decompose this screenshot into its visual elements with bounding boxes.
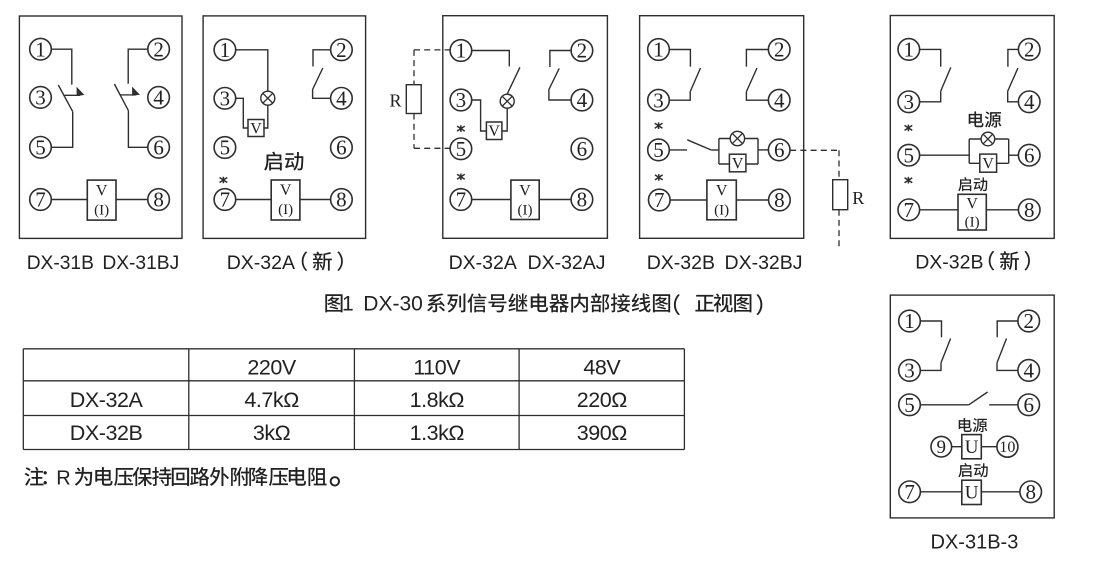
relay case DX-31B-3 outline <box>890 295 1054 518</box>
wire contact K2 to terminal 4 <box>746 92 768 101</box>
wire coil to terminal8 <box>736 199 768 201</box>
svg-text:V: V <box>966 196 978 213</box>
wire group to terminal 6 <box>1009 154 1019 156</box>
svg-text:4: 4 <box>1024 90 1035 114</box>
wire contact K3 to lamp group <box>711 149 719 151</box>
terminal 6 <box>768 138 790 162</box>
wire terminal3 to V resistor <box>472 100 487 131</box>
asterisk marker terminal 5 <box>655 122 663 129</box>
note: R is an external voltage-dropping resistor for the voltage holding loop <box>25 467 340 489</box>
terminal 5 <box>214 136 236 160</box>
svg-text:8: 8 <box>336 188 347 212</box>
svg-text:V: V <box>96 182 108 199</box>
svg-text:4: 4 <box>336 86 347 110</box>
wire contact K2 to terminal 6 <box>128 111 147 148</box>
wire terminal3 to V resistor <box>236 98 248 128</box>
terminal 8 <box>331 188 353 212</box>
contact K2 motion arrow <box>120 87 140 96</box>
wire contact K2 to terminal 4 <box>997 363 1018 371</box>
wire coil to terminal8 <box>986 209 1018 211</box>
coil V(I) box DX-32A <box>271 180 300 220</box>
power coil U box <box>962 435 982 459</box>
figure caption: Fig.1 DX-30 series signal relay internal wiring (front view) <box>325 293 762 316</box>
svg-text:6: 6 <box>336 136 347 160</box>
wire terminal1 to contact K1 <box>472 51 509 67</box>
wire terminal7 to U box <box>920 491 961 493</box>
wire U box to terminal10 <box>981 446 997 448</box>
terminal 1 <box>899 309 921 333</box>
svg-text:DX-32BJ: DX-32BJ <box>725 252 803 274</box>
V branch wire <box>719 163 758 165</box>
external resistor R dashed lead left upper <box>413 50 415 85</box>
svg-text:5: 5 <box>35 135 46 159</box>
resistor box V <box>486 122 502 140</box>
terminal 7 <box>450 188 472 212</box>
wire coil to terminal8 <box>539 199 571 201</box>
wire contact K3 to terminal 6 <box>989 404 1018 406</box>
asterisk marker terminal 7 <box>457 174 465 181</box>
terminal 1 <box>214 38 236 62</box>
resistor R body <box>406 85 421 114</box>
terminal 2 <box>1018 38 1040 62</box>
label qidong (start) <box>264 152 303 171</box>
terminal 4 <box>148 86 170 110</box>
svg-text:(I): (I) <box>278 202 293 218</box>
svg-text:8: 8 <box>153 188 164 212</box>
svg-text:DX-32A: DX-32A <box>449 252 517 274</box>
svg-text:3kΩ: 3kΩ <box>253 421 291 445</box>
svg-text:3: 3 <box>220 86 231 110</box>
terminal 5 <box>648 138 670 162</box>
svg-text:DX-31B-3: DX-31B-3 <box>931 531 1019 553</box>
terminal 6 <box>571 137 593 161</box>
svg-text:2: 2 <box>336 38 347 62</box>
contact K2 moving blade <box>1008 68 1018 91</box>
svg-text:DX-30: DX-30 <box>363 293 423 316</box>
svg-text:48V: 48V <box>583 355 621 379</box>
svg-text:1: 1 <box>220 38 231 62</box>
wire terminal7 to coil <box>472 199 511 201</box>
contact K2 moving blade <box>313 68 323 90</box>
svg-text:10: 10 <box>999 439 1015 456</box>
terminal 3 <box>214 86 236 110</box>
external resistor R dashed lead top <box>414 49 450 51</box>
terminal 2 <box>1018 309 1040 333</box>
terminal 4 <box>1018 90 1040 114</box>
svg-text:220V: 220V <box>247 355 297 379</box>
svg-text:8: 8 <box>1024 198 1035 222</box>
svg-text:6: 6 <box>774 138 785 162</box>
wire terminal2 to contact K2 <box>313 50 331 67</box>
terminal 6 <box>331 136 353 160</box>
wire terminal5 to lamp group <box>920 154 970 156</box>
label qidong (start) <box>958 177 987 191</box>
wire terminal7 to coil <box>670 199 707 201</box>
svg-text:8: 8 <box>1025 480 1036 504</box>
wire contact K1 to terminal 3 <box>920 91 941 102</box>
terminal 10 <box>997 436 1018 457</box>
terminal 8 <box>1020 480 1042 504</box>
svg-text:9: 9 <box>937 437 947 458</box>
terminal 4 <box>1018 359 1040 383</box>
contact K2 moving blade <box>114 84 128 111</box>
terminal 7 <box>214 188 236 212</box>
svg-text:1.8kΩ: 1.8kΩ <box>410 388 465 412</box>
V branch wire <box>969 162 1009 164</box>
dashed lead terminal6 to resistor R <box>790 149 839 151</box>
terminal 8 <box>769 188 791 212</box>
relay case DX-32B/DX-32BJ outline <box>640 16 804 239</box>
svg-text:5: 5 <box>220 136 231 160</box>
lamp branch wire <box>719 138 758 140</box>
wire group to terminal 6 <box>758 149 768 151</box>
contact K3 moving blade <box>969 392 988 405</box>
terminal 1 <box>450 39 472 63</box>
svg-text:6: 6 <box>1023 393 1034 417</box>
wire terminal2 to contact K2 <box>997 321 1018 337</box>
svg-text:5: 5 <box>904 393 915 417</box>
terminal 5 <box>450 137 472 161</box>
contact K1 moving blade <box>690 68 700 92</box>
terminal 5 <box>30 135 52 159</box>
label dianyuan (power) <box>959 418 988 432</box>
svg-text:2: 2 <box>774 38 785 62</box>
relay case DX-32A(new) outline <box>203 16 366 239</box>
svg-text:DX-32B: DX-32B <box>647 252 715 274</box>
contact K1 moving blade <box>58 85 72 112</box>
svg-text:6: 6 <box>153 135 164 159</box>
wire terminal2 to contact K2 <box>1008 49 1019 66</box>
svg-text:(I): (I) <box>714 202 729 218</box>
relay case DX-31B outline <box>19 16 182 238</box>
resistor box V <box>248 120 264 138</box>
terminal 4 <box>331 86 353 110</box>
wire terminal2 to contact K2 <box>746 50 768 67</box>
external resistor R dashed lead bottom <box>414 147 450 149</box>
terminal 3 <box>450 88 472 112</box>
terminal 3 <box>898 90 920 114</box>
wire contact K1 to terminal 3 <box>669 92 690 101</box>
svg-text:(I): (I) <box>518 202 533 218</box>
svg-text:2: 2 <box>577 39 588 63</box>
svg-text:R: R <box>56 467 70 489</box>
svg-text:1: 1 <box>342 293 354 316</box>
lamp/V parallel group right rail <box>1008 139 1010 163</box>
svg-text:DX-32AJ: DX-32AJ <box>528 252 606 274</box>
terminal 5 <box>899 393 921 417</box>
wire U box to terminal8 <box>981 491 1020 493</box>
wire lamp to V resistor <box>502 108 507 131</box>
svg-text:5: 5 <box>904 143 915 167</box>
label qidong (start) <box>958 463 987 477</box>
wire terminal7 to coil <box>920 209 958 211</box>
svg-text:DX-32A: DX-32A <box>227 252 295 274</box>
terminal 3 <box>30 86 52 110</box>
svg-text:2: 2 <box>153 37 164 61</box>
svg-text:8: 8 <box>577 188 588 212</box>
terminal 3 <box>899 359 921 383</box>
contact K2 moving blade <box>997 339 1007 363</box>
svg-text:7: 7 <box>904 198 915 222</box>
wire terminal1 to contact K1 <box>669 50 690 67</box>
wire terminal7 to coil <box>51 199 87 201</box>
svg-text:R: R <box>852 188 864 208</box>
svg-text:390Ω: 390Ω <box>577 421 628 445</box>
svg-text:1: 1 <box>653 38 664 62</box>
terminal 7 <box>899 480 921 504</box>
lamp/V parallel group right rail <box>757 139 759 165</box>
external resistor R dashed lead left lower <box>413 114 415 149</box>
terminal 5 <box>898 143 920 167</box>
terminal 7 <box>649 188 671 212</box>
terminal 8 <box>571 188 593 212</box>
dashed lead down to resistor R <box>838 150 840 179</box>
svg-text:DX-31BJ: DX-31BJ <box>102 253 179 274</box>
svg-text:7: 7 <box>35 188 46 212</box>
lamp branch wire <box>969 138 1009 140</box>
svg-text:V: V <box>519 182 531 199</box>
contact K1 motion arrow <box>64 87 84 96</box>
svg-text:4.7kΩ: 4.7kΩ <box>244 388 299 412</box>
terminal 1 <box>648 38 670 62</box>
terminal 7 <box>30 188 52 212</box>
contact K2 moving blade <box>549 68 559 89</box>
svg-text:V: V <box>716 182 728 199</box>
svg-text:7: 7 <box>456 188 467 212</box>
terminal 6 <box>148 135 170 159</box>
terminal 4 <box>571 88 593 112</box>
terminal 4 <box>768 88 790 112</box>
contact K3 moving blade <box>687 140 711 150</box>
terminal 2 <box>768 38 790 62</box>
svg-text:DX-32A: DX-32A <box>70 388 144 412</box>
svg-text:1: 1 <box>456 39 467 63</box>
coil V(I) box DX-32B/BJ <box>707 180 736 220</box>
svg-text:4: 4 <box>774 88 785 112</box>
asterisk marker terminal 7 <box>905 177 913 184</box>
contact K1 moving blade <box>941 67 951 91</box>
svg-text:110V: 110V <box>413 355 461 379</box>
wire contact K1 to terminal 5 <box>51 112 72 148</box>
svg-text:3: 3 <box>35 86 46 110</box>
terminal 7 <box>898 198 920 222</box>
svg-text:1.3kΩ: 1.3kΩ <box>410 421 465 445</box>
terminal 2 <box>331 38 353 62</box>
wire contact K1 to terminal 3 <box>920 363 941 371</box>
wire terminal1 to contact K1 <box>920 49 941 66</box>
svg-text:U: U <box>965 483 979 504</box>
wire terminal2 to contact K2 fixed end <box>128 49 148 83</box>
wire terminal9 to U box <box>952 446 962 448</box>
svg-text:8: 8 <box>774 188 785 212</box>
lamp/V parallel group left rail <box>968 139 970 163</box>
table cell text <box>70 355 627 445</box>
lamp/V parallel group left rail <box>718 139 720 165</box>
terminal 6 <box>1018 143 1040 167</box>
svg-text:V: V <box>250 120 262 137</box>
signal lamp HL <box>261 91 275 105</box>
terminal 1 <box>30 37 52 61</box>
wire terminal5 to contact K3 <box>669 149 687 151</box>
coil V(I) box DX-32A/AJ <box>511 180 539 219</box>
svg-text:2: 2 <box>1024 38 1035 62</box>
svg-text:5: 5 <box>456 137 467 161</box>
terminal 1 <box>898 38 920 62</box>
resistance table grid <box>23 349 684 450</box>
terminal 2 <box>571 39 593 63</box>
resistor box V <box>980 154 997 172</box>
svg-text:(I): (I) <box>965 215 980 231</box>
wire terminal1 to contact K1 <box>920 321 941 337</box>
svg-text:V: V <box>280 182 292 199</box>
wire terminal1 to lamp <box>236 50 268 91</box>
dashed lead below resistor R <box>838 210 840 248</box>
signal lamp HL <box>730 131 744 145</box>
svg-text:7: 7 <box>654 188 665 212</box>
wire terminal2 to contact K2 <box>550 51 571 68</box>
wire terminal5 to contact K3 <box>920 404 969 406</box>
wire contact K2 to terminal 4 <box>313 90 331 99</box>
asterisk marker terminal 5 <box>905 125 913 132</box>
asterisk marker terminal 7 <box>220 177 228 184</box>
svg-text:6: 6 <box>1024 143 1035 167</box>
svg-text:DX-32B: DX-32B <box>70 421 143 445</box>
svg-text:(I): (I) <box>94 202 109 218</box>
svg-text:1: 1 <box>35 37 46 61</box>
svg-text:1: 1 <box>904 309 915 333</box>
svg-text:V: V <box>982 155 994 172</box>
contact K2 moving blade <box>746 68 757 92</box>
signal lamp HL <box>500 94 514 108</box>
svg-text:220Ω: 220Ω <box>577 388 628 412</box>
relay case DX-32B(new) outline <box>890 16 1054 239</box>
terminal 8 <box>148 188 170 212</box>
terminal 3 <box>648 88 670 112</box>
svg-text:3: 3 <box>904 359 915 383</box>
svg-text:R: R <box>389 90 401 110</box>
asterisk marker terminal 7 <box>655 174 663 181</box>
wire terminal7 to coil <box>236 199 272 201</box>
terminal 6 <box>1018 393 1040 417</box>
svg-text:7: 7 <box>220 188 231 212</box>
svg-text:7: 7 <box>904 480 915 504</box>
asterisk marker terminal 5 <box>457 125 465 132</box>
svg-text:4: 4 <box>1023 359 1034 383</box>
svg-text:1: 1 <box>904 38 915 62</box>
svg-text:U: U <box>965 437 979 458</box>
wire contact K2 to terminal 4 <box>549 90 571 101</box>
resistor box V <box>729 154 746 172</box>
coil V(I) box DX-31B <box>87 180 116 220</box>
signal lamp HL <box>981 132 995 146</box>
wire terminal1 to contact K1 fixed end <box>51 49 72 84</box>
start coil U box <box>962 480 982 504</box>
wire contact K2 to terminal 4 <box>1008 91 1019 102</box>
svg-text:2: 2 <box>1023 309 1034 333</box>
contact K1 moving blade <box>941 339 951 363</box>
wire lamp to V resistor <box>264 105 268 128</box>
svg-text:DX-32B: DX-32B <box>915 252 983 274</box>
resistor R body <box>833 180 848 210</box>
svg-text:V: V <box>732 155 744 172</box>
svg-text:6: 6 <box>577 137 588 161</box>
svg-text:3: 3 <box>653 88 664 112</box>
terminal 9 <box>931 436 952 458</box>
svg-text:4: 4 <box>153 86 164 110</box>
svg-text:V: V <box>488 123 500 140</box>
label dianyuan (power) <box>969 111 1002 127</box>
terminal 8 <box>1018 198 1040 222</box>
svg-text:3: 3 <box>904 90 915 114</box>
coil V(I) box DX-32B(new) <box>958 194 986 230</box>
svg-text:4: 4 <box>577 88 588 112</box>
terminal 2 <box>148 37 170 61</box>
svg-text:DX-31B: DX-31B <box>27 253 94 274</box>
svg-text:3: 3 <box>456 88 467 112</box>
svg-text:5: 5 <box>653 138 664 162</box>
contact K1 moving blade <box>507 67 520 94</box>
wire coil to terminal8 <box>116 199 148 201</box>
relay case DX-32A/DX-32AJ outline <box>443 16 608 239</box>
wire coil to terminal8 <box>300 199 331 201</box>
